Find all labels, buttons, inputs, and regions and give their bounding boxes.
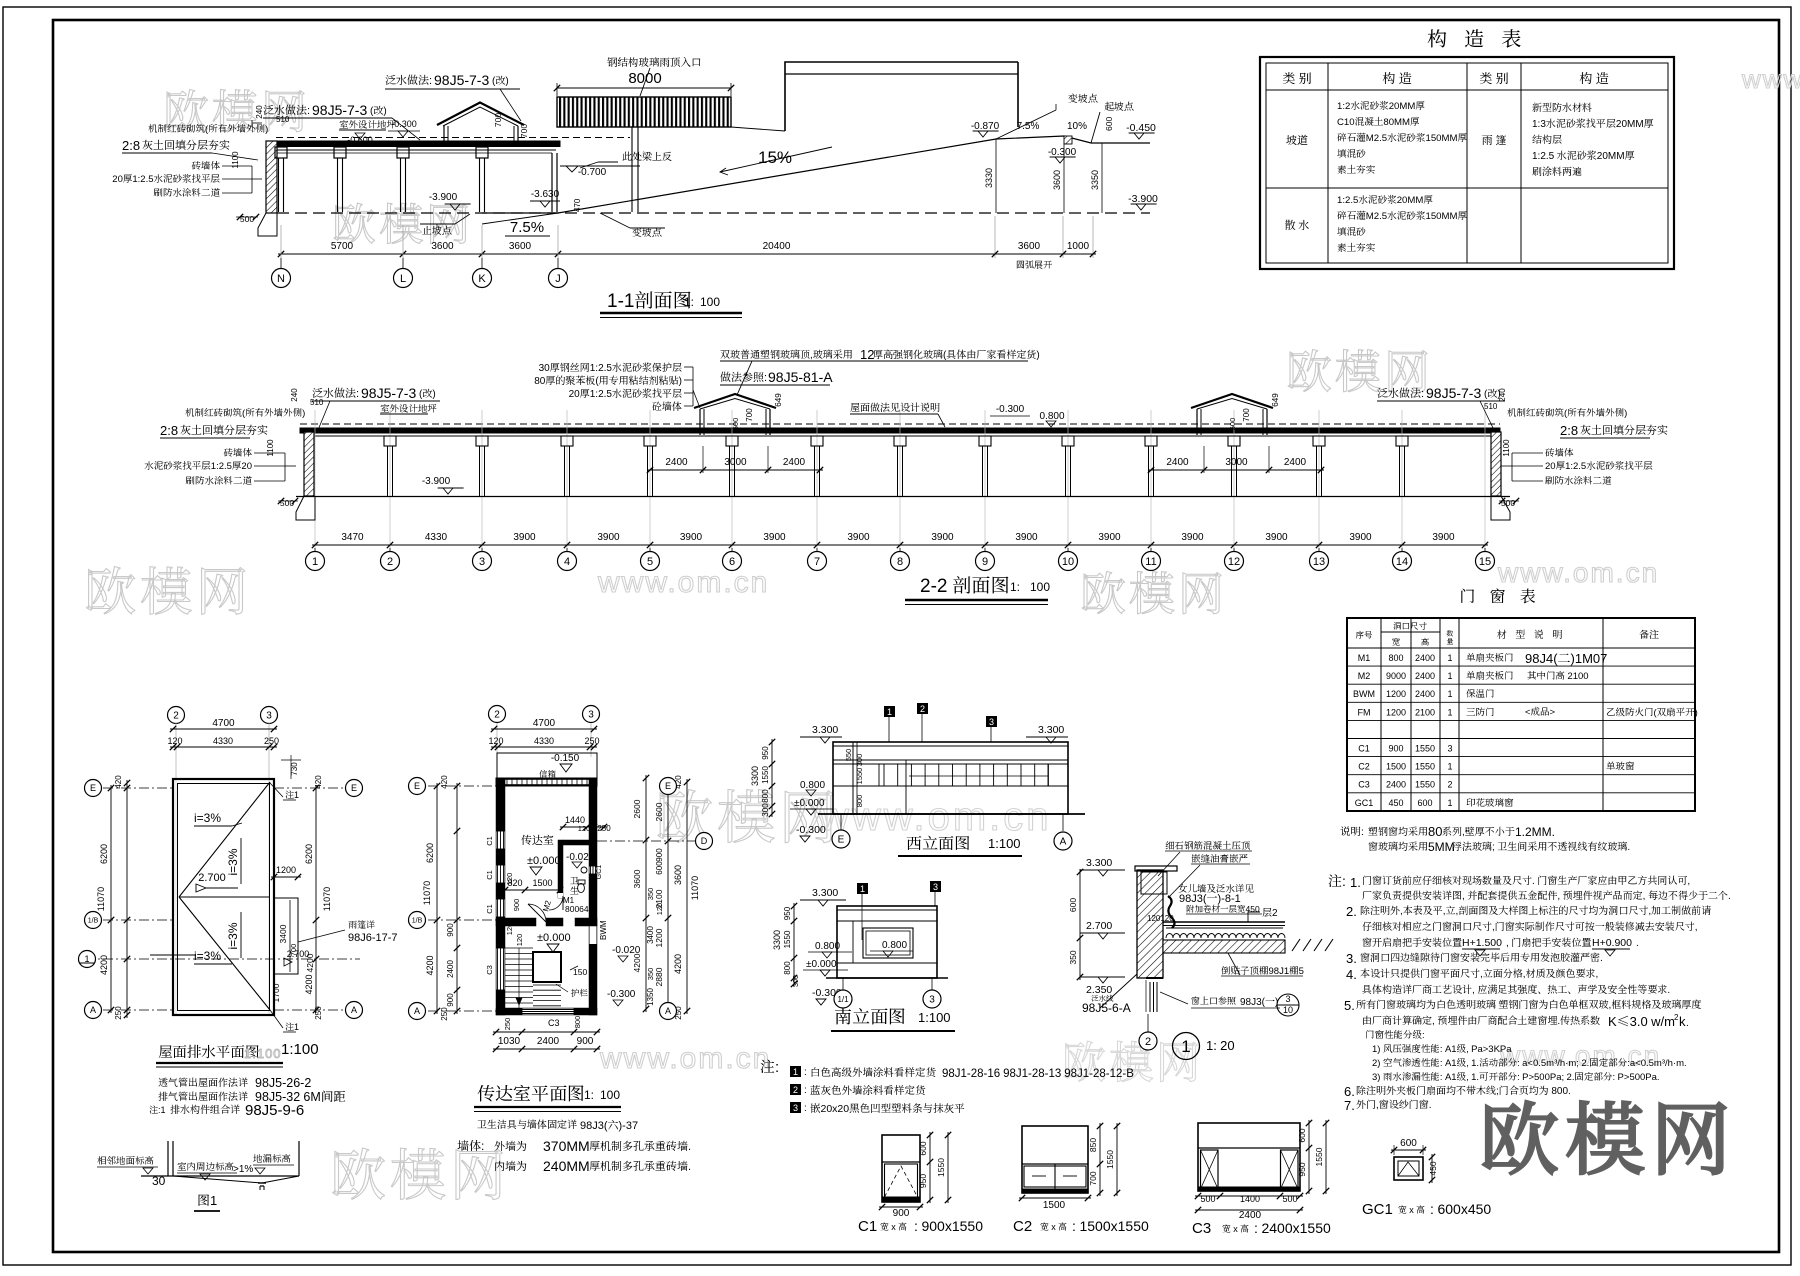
svg-text:砖墙体: 砖墙体 xyxy=(191,158,220,172)
svg-text:3600: 3600 xyxy=(1050,170,1063,190)
svg-text:1:3水泥砂浆找平层20MM厚: 1:3水泥砂浆找平层20MM厚 xyxy=(1532,115,1654,130)
svg-text:3600: 3600 xyxy=(1018,237,1041,252)
svg-text:6200: 6200 xyxy=(302,844,315,864)
section 2-2 skylight 1 gable xyxy=(694,394,776,408)
svg-text:注:: 注: xyxy=(760,1056,779,1077)
svg-text:4200: 4200 xyxy=(97,955,110,975)
section 2-2 beams and columns xyxy=(384,436,396,446)
svg-text:250: 250 xyxy=(439,1007,450,1021)
svg-text:1100: 1100 xyxy=(265,439,276,457)
svg-text:填混砂: 填混砂 xyxy=(1337,224,1366,238)
svg-text:9: 9 xyxy=(982,553,988,569)
svg-text:E: E xyxy=(838,831,845,846)
svg-text:1: 20: 1: 20 xyxy=(1206,1035,1235,1054)
svg-text:3600: 3600 xyxy=(671,865,684,885)
svg-text:.: . xyxy=(1686,1014,1689,1029)
west elevation window mullions xyxy=(883,764,885,786)
svg-text:三防门: 三防门 xyxy=(1466,704,1495,718)
svg-text:2600: 2600 xyxy=(653,802,665,821)
svg-text:3350: 3350 xyxy=(1088,170,1101,190)
svg-text::: : xyxy=(804,1081,807,1096)
section 2-2 grid dimension chain xyxy=(312,544,1488,546)
svg-text:嵌缝油膏嵌严: 嵌缝油膏嵌严 xyxy=(1191,851,1248,865)
svg-text:K: K xyxy=(478,270,486,286)
svg-text:GC1: GC1 xyxy=(594,865,604,880)
svg-text:C3: C3 xyxy=(1192,1217,1211,1238)
svg-text:仔细核对相应之门窗洞口尺寸,门窗实际制作尺寸可按一般装修减去: 仔细核对相应之门窗洞口尺寸,门窗实际制作尺寸可按一般装修减去安装尺寸, xyxy=(1362,918,1698,933)
svg-text:GC1: GC1 xyxy=(1362,1198,1393,1219)
svg-text:窗洞口四边缝隙待门窗安装完毕后用专用发泡胶灌严密.: 窗洞口四边缝隙待门窗安装完毕后用专用发泡胶灌严密. xyxy=(1360,949,1603,964)
svg-text:(改): (改) xyxy=(370,102,387,117)
section 2-2 grid bubbles 1-15 xyxy=(314,548,316,552)
detail bubbles xyxy=(1147,1014,1149,1032)
svg-text:2100: 2100 xyxy=(1415,705,1435,718)
svg-text:850: 850 xyxy=(1087,1138,1099,1152)
svg-text:欧模网: 欧模网 xyxy=(84,550,252,625)
svg-text:20厚1:2.5水泥砂浆找平层: 20厚1:2.5水泥砂浆找平层 xyxy=(1545,458,1653,472)
svg-text:98J1-28-16 98J1-28-13 98J1-2: 98J1-28-16 98J1-28-13 98J1-28-12-B xyxy=(942,1065,1134,1081)
svg-text:除注明外夹板门扇面均不带木线;门合页均为 800.: 除注明外夹板门扇面均不带木线;门合页均为 800. xyxy=(1356,1082,1571,1097)
svg-text:3300: 3300 xyxy=(770,930,783,950)
svg-text:1: 1 xyxy=(887,705,892,718)
section 1-1 right column at J xyxy=(551,153,553,212)
svg-text:-3.900: -3.900 xyxy=(422,472,451,487)
svg-text:(改): (改) xyxy=(492,72,509,87)
svg-text:1100: 1100 xyxy=(230,151,241,169)
section 2-2 ground line xyxy=(296,496,1510,498)
svg-text:1030: 1030 xyxy=(498,1032,521,1047)
section 1-1 level -0.870 xyxy=(978,131,988,137)
svg-text:500: 500 xyxy=(1200,1192,1215,1205)
svg-text:300: 300 xyxy=(791,975,801,987)
svg-text:印花玻璃窗: 印花玻璃窗 xyxy=(1466,795,1514,809)
svg-text:3900: 3900 xyxy=(680,528,703,543)
svg-text:10%: 10% xyxy=(1067,117,1087,132)
svg-text:3900: 3900 xyxy=(1098,528,1121,543)
svg-text:相邻地面标高: 相邻地面标高 xyxy=(97,1153,154,1167)
svg-text:E: E xyxy=(414,779,420,792)
south elevation outline xyxy=(837,906,937,978)
svg-text:1: 1 xyxy=(1447,796,1452,809)
svg-text:±0.000: ±0.000 xyxy=(806,955,837,970)
svg-text:1:2.5水泥砂浆20MM厚: 1:2.5水泥砂浆20MM厚 xyxy=(1337,192,1433,206)
svg-text:1: 1 xyxy=(1181,1032,1190,1057)
svg-text:600: 600 xyxy=(1417,796,1432,809)
svg-text:白色高级外墙涂料看样定货: 白色高级外墙涂料看样定货 xyxy=(810,1065,936,1080)
svg-text:900: 900 xyxy=(654,848,665,862)
svg-text:变坡点: 变坡点 xyxy=(1067,90,1098,105)
svg-text:泛水做法:: 泛水做法: xyxy=(385,72,432,88)
svg-text:950: 950 xyxy=(782,906,793,920)
svg-text:0.800: 0.800 xyxy=(882,936,907,951)
gatehouse left wall xyxy=(496,786,505,1015)
svg-text:649: 649 xyxy=(773,393,784,407)
svg-text:4330: 4330 xyxy=(534,734,554,747)
svg-text:厚高强钢化玻璃(具体由厂家看样定货): 厚高强钢化玻璃(具体由厂家看样定货) xyxy=(873,346,1040,361)
south elevation window xyxy=(863,928,913,958)
svg-text:外门,窗设纱门窗.: 外门,窗设纱门窗. xyxy=(1356,1096,1432,1111)
roof plan top dims xyxy=(170,728,277,730)
svg-text:附加卷材一层宽450: 附加卷材一层宽450 xyxy=(1186,903,1260,915)
svg-text:2: 2 xyxy=(494,706,500,721)
svg-text:-0.150: -0.150 xyxy=(551,749,580,764)
svg-text:±0.000: ±0.000 xyxy=(527,852,561,868)
svg-text:1:100: 1:100 xyxy=(244,1043,282,1062)
svg-text:420: 420 xyxy=(439,775,450,789)
section 1-1 canopy dimension 8000 xyxy=(557,87,731,89)
roof plan left dims xyxy=(110,785,112,1013)
svg-text:800: 800 xyxy=(1388,651,1403,664)
svg-text:E: E xyxy=(90,781,96,794)
svg-text:构 造 表: 构 造 表 xyxy=(1427,23,1527,52)
section 1-1 roof dashed screed line xyxy=(276,137,630,139)
svg-text:: 2400x1550: : 2400x1550 xyxy=(1254,1218,1331,1238)
svg-text:<成品>: <成品> xyxy=(1525,704,1556,718)
svg-text:A: A xyxy=(351,1003,357,1016)
svg-text:西立面图: 西立面图 xyxy=(906,831,970,854)
section 2-2 roof slab band xyxy=(300,428,1500,433)
svg-text:250: 250 xyxy=(584,734,599,747)
svg-text:A: A xyxy=(414,1004,420,1017)
svg-text:100: 100 xyxy=(600,1086,620,1103)
west elevation outline xyxy=(833,742,1068,814)
svg-text:-0.700: -0.700 xyxy=(578,163,607,178)
svg-text:卫生洁具与墙体固定详: 卫生洁具与墙体固定详 xyxy=(477,1116,578,1131)
door window table columns xyxy=(1380,618,1382,811)
svg-text:3900: 3900 xyxy=(847,528,870,543)
svg-text:3330: 3330 xyxy=(982,168,995,188)
svg-text:500: 500 xyxy=(730,418,741,431)
svg-text:800640: 800640 xyxy=(565,903,594,915)
svg-text:98J3(六)-37: 98J3(六)-37 xyxy=(580,1117,638,1133)
svg-text:2.700: 2.700 xyxy=(1086,918,1112,933)
svg-text:(改): (改) xyxy=(419,385,436,400)
svg-text:2400: 2400 xyxy=(537,1032,560,1047)
south elevation ground and bubbles xyxy=(826,977,948,979)
svg-text:排水构件组合详: 排水构件组合详 xyxy=(170,1101,241,1116)
svg-text:510: 510 xyxy=(276,114,290,125)
svg-text:120: 120 xyxy=(167,734,182,747)
svg-text:7: 7 xyxy=(814,553,820,569)
gatehouse toilet fixtures xyxy=(578,883,585,892)
roof plan ridge and valley lines xyxy=(179,896,270,898)
section 1-1 canopy column xyxy=(631,127,633,212)
svg-text:11070: 11070 xyxy=(688,876,701,900)
svg-text:500: 500 xyxy=(1282,1192,1297,1205)
svg-text:A: A xyxy=(665,1004,671,1017)
svg-text:2600: 2600 xyxy=(631,799,643,818)
svg-text:510: 510 xyxy=(1484,401,1498,412)
svg-text:250: 250 xyxy=(113,1006,124,1020)
svg-text:1: 1 xyxy=(1447,705,1452,718)
gatehouse top dims xyxy=(491,728,597,730)
svg-text:i=3%: i=3% xyxy=(194,947,221,964)
svg-text:L: L xyxy=(400,270,406,286)
svg-text:-0.020: -0.020 xyxy=(566,848,595,863)
svg-text:649: 649 xyxy=(1270,393,1281,407)
roof plan right grid bubbles xyxy=(274,787,346,789)
svg-text:2:8: 2:8 xyxy=(160,420,178,439)
svg-text:嵌20x20黑色凹型塑料条与抹灰平: 嵌20x20黑色凹型塑料条与抹灰平 xyxy=(810,1101,965,1116)
svg-text:3400: 3400 xyxy=(277,924,289,943)
west elevation left dims xyxy=(771,739,773,817)
svg-text:900: 900 xyxy=(577,1032,594,1047)
svg-text:刷防水涂料二道: 刷防水涂料二道 xyxy=(1545,473,1612,487)
svg-text:素土夯实: 素土夯实 xyxy=(1337,240,1375,254)
south elevation finish flags xyxy=(857,883,868,894)
svg-text:240MM: 240MM xyxy=(543,1156,590,1176)
svg-text:100: 100 xyxy=(700,293,720,310)
svg-text:1:2.5 水泥砂浆20MM厚: 1:2.5 水泥砂浆20MM厚 xyxy=(1532,147,1635,162)
svg-text:宽 x 高: 宽 x 高 xyxy=(1222,1222,1249,1235)
svg-text:0.800: 0.800 xyxy=(815,937,840,952)
svg-text:3900: 3900 xyxy=(1432,528,1455,543)
svg-text:500: 500 xyxy=(1227,418,1238,431)
svg-text:外墙为: 外墙为 xyxy=(494,1138,527,1154)
svg-text:3: 3 xyxy=(1447,742,1452,755)
svg-text:倒贴子顶棚98J1棚5: 倒贴子顶棚98J1棚5 xyxy=(1221,963,1304,977)
svg-text:3900: 3900 xyxy=(513,528,536,543)
svg-text:新型防水材料: 新型防水材料 xyxy=(1532,99,1592,114)
svg-text:1-1剖面图: 1-1剖面图 xyxy=(607,286,691,313)
section 1-1 level -0.450 xyxy=(1134,133,1144,139)
svg-text:700: 700 xyxy=(744,408,755,422)
svg-text:2) 空气渗透性能: A1级, 1.活动部分: a<0.5: 2) 空气渗透性能: A1级, 1.活动部分: a<0.5m³/h·m; 2.固… xyxy=(1372,1055,1687,1069)
svg-text:4330: 4330 xyxy=(425,528,448,543)
svg-text:i=3%: i=3% xyxy=(194,809,221,826)
svg-text:A: A xyxy=(90,1003,96,1016)
section 2-2 left exterior wall hatched xyxy=(304,432,314,496)
west elevation finish flags xyxy=(884,706,895,717)
svg-text:30: 30 xyxy=(152,1172,166,1189)
svg-text:1500: 1500 xyxy=(532,876,552,889)
svg-text:1/B: 1/B xyxy=(412,916,423,926)
svg-text:1: 1 xyxy=(1447,651,1452,664)
window GC1 elevation xyxy=(1394,1157,1423,1180)
svg-text:±0.000: ±0.000 xyxy=(794,794,825,809)
svg-text:1.: 1. xyxy=(1350,872,1361,891)
svg-text:240: 240 xyxy=(1497,388,1508,402)
svg-text:600: 600 xyxy=(654,861,665,875)
gatehouse right dim stack xyxy=(645,775,647,1012)
svg-text:内墙为: 内墙为 xyxy=(494,1158,527,1174)
detail hatch continuation slashes xyxy=(1292,939,1300,951)
svg-text:H+0.900: H+0.900 xyxy=(1592,935,1632,950)
gatehouse right grid bubbles xyxy=(597,840,696,842)
svg-text:700: 700 xyxy=(492,113,504,127)
svg-text:120: 120 xyxy=(488,734,503,747)
svg-text:1550: 1550 xyxy=(1313,1147,1325,1166)
svg-text:填混砂: 填混砂 xyxy=(1337,146,1366,160)
svg-text:H+1.500: H+1.500 xyxy=(1462,935,1502,950)
svg-text:宽 x 高: 宽 x 高 xyxy=(1040,1220,1067,1233)
svg-text:450: 450 xyxy=(1388,796,1403,809)
svg-text:泛水做法:: 泛水做法: xyxy=(1377,385,1424,401)
svg-text:15: 15 xyxy=(1479,553,1491,569)
svg-text:1500: 1500 xyxy=(1043,1196,1066,1211)
svg-text:1: 1 xyxy=(1447,760,1452,773)
svg-text:900: 900 xyxy=(445,923,456,937)
svg-text:4200: 4200 xyxy=(423,955,436,975)
svg-text:刷涂料两遍: 刷涂料两遍 xyxy=(1532,163,1582,178)
svg-text:注1: 注1 xyxy=(285,1020,299,1033)
svg-text:2.: 2. xyxy=(1346,901,1357,920)
svg-text:15%: 15% xyxy=(758,143,792,168)
svg-text:2: 2 xyxy=(387,553,393,569)
svg-text:坡道: 坡道 xyxy=(1286,132,1308,148)
svg-text:i=3%: i=3% xyxy=(224,848,241,875)
gatehouse toilet walls xyxy=(558,840,563,898)
svg-text:1000: 1000 xyxy=(1067,237,1090,252)
svg-text:机制红砖砌筑(所有外墙外侧): 机制红砖砌筑(所有外墙外侧) xyxy=(1507,405,1627,419)
svg-text:2400: 2400 xyxy=(1415,669,1435,682)
svg-text:备注: 备注 xyxy=(1639,626,1659,641)
svg-text:6200: 6200 xyxy=(423,843,436,863)
section 1-1 roof slab xyxy=(268,141,560,147)
svg-text:420: 420 xyxy=(313,775,324,789)
svg-text:2:8: 2:8 xyxy=(1560,420,1578,439)
svg-text:C10混凝土80MM厚: C10混凝土80MM厚 xyxy=(1337,114,1420,128)
svg-text:1550: 1550 xyxy=(760,766,771,784)
detail insulation scallops xyxy=(1166,934,1285,939)
svg-text:300: 300 xyxy=(854,754,865,767)
svg-text:5.: 5. xyxy=(1344,995,1355,1014)
svg-text:-0.300: -0.300 xyxy=(796,822,826,837)
svg-text:10: 10 xyxy=(1283,1003,1293,1016)
svg-text:i=3%: i=3% xyxy=(224,922,241,949)
section 1-1 skylight gable xyxy=(437,103,524,126)
svg-text:: 900x1550: : 900x1550 xyxy=(914,1216,983,1236)
svg-text:2400: 2400 xyxy=(1415,651,1435,664)
svg-text:1550: 1550 xyxy=(1415,760,1435,773)
svg-text:1550: 1550 xyxy=(935,1158,947,1177)
svg-text:2400: 2400 xyxy=(1415,687,1435,700)
svg-text:3: 3 xyxy=(266,707,272,722)
svg-text:700: 700 xyxy=(288,944,299,957)
svg-text:600: 600 xyxy=(1103,117,1115,131)
window C3 elevation xyxy=(1198,1123,1300,1191)
svg-text:600: 600 xyxy=(1400,1134,1417,1149)
svg-text:6: 6 xyxy=(729,553,735,569)
svg-text:E: E xyxy=(665,779,671,792)
svg-text:序号: 序号 xyxy=(1355,629,1373,641)
svg-text:1550: 1550 xyxy=(782,930,793,948)
svg-text:C3: C3 xyxy=(548,1016,560,1029)
svg-text:室内周边标高: 室内周边标高 xyxy=(177,1159,234,1173)
gatehouse grid bubbles top xyxy=(489,706,506,723)
svg-text:传达室平面图: 传达室平面图 xyxy=(477,1080,585,1106)
figure1 ground level detail xyxy=(141,1175,299,1177)
svg-text:层2: 层2 xyxy=(1262,904,1278,919)
svg-text:透气管出屋面作法详: 透气管出屋面作法详 xyxy=(158,1074,249,1089)
svg-text:此处梁上反: 此处梁上反 xyxy=(622,148,672,163)
gatehouse left dims xyxy=(436,783,438,1014)
construction table outer frame xyxy=(1260,57,1674,269)
svg-text:南立面图: 南立面图 xyxy=(834,1003,906,1029)
svg-text:结构层: 结构层 xyxy=(1532,131,1562,146)
svg-text:1:: 1: xyxy=(1010,578,1020,595)
svg-text:J: J xyxy=(555,270,561,286)
svg-text:类 别: 类 别 xyxy=(1479,68,1508,87)
svg-text:2880: 2880 xyxy=(653,967,665,986)
svg-text:12: 12 xyxy=(1228,553,1240,569)
svg-text:厂家负责提供安装详图, 并配套提供五金配件, 预埋件视产品而: 厂家负责提供安装详图, 并配套提供五金配件, 预埋件视产品而定, 每边不得少于二… xyxy=(1362,887,1731,902)
svg-text:M1: M1 xyxy=(1358,651,1371,664)
svg-text:-0.300: -0.300 xyxy=(607,985,636,1000)
svg-text:2400: 2400 xyxy=(1386,778,1406,791)
svg-text:3900: 3900 xyxy=(1015,528,1038,543)
svg-text:700: 700 xyxy=(1087,1171,1099,1185)
svg-text:800: 800 xyxy=(572,1016,583,1029)
svg-text:900: 900 xyxy=(511,899,522,912)
gatehouse entrance porch xyxy=(497,753,597,778)
svg-text:3: 3 xyxy=(929,991,935,1006)
svg-text:3600: 3600 xyxy=(431,237,454,252)
svg-text:洞口尺寸: 洞口尺寸 xyxy=(1393,620,1428,632)
svg-text:, 门扇把手安装位置: , 门扇把手安装位置 xyxy=(1506,934,1591,949)
svg-text:-0.450: -0.450 xyxy=(1126,120,1156,135)
svg-text:-3.900: -3.900 xyxy=(1128,191,1158,206)
svg-text:砖墙体: 砖墙体 xyxy=(1545,445,1574,459)
svg-text:9000: 9000 xyxy=(1386,669,1406,682)
svg-text:800: 800 xyxy=(760,789,771,803)
svg-text:>1%: >1% xyxy=(233,1160,253,1175)
svg-text:1700: 1700 xyxy=(270,983,282,1002)
svg-text:乙级防火门(双扇平开): 乙级防火门(双扇平开) xyxy=(1606,704,1698,718)
svg-text:门窗订货前应仔细核对现场数量及尺寸. 门窗生产厂家应由甲乙方: 门窗订货前应仔细核对现场数量及尺寸. 门窗生产厂家应由甲乙方共同认可, xyxy=(1362,872,1690,887)
svg-text:1200: 1200 xyxy=(653,928,665,947)
svg-text:K≤3.0 w/m: K≤3.0 w/m xyxy=(1608,1011,1675,1030)
section 2-2 interior dims 2400 3000 2400 right xyxy=(1148,469,1324,471)
svg-text:250: 250 xyxy=(264,734,279,747)
svg-text:1550: 1550 xyxy=(1415,778,1435,791)
svg-text::: : xyxy=(804,1063,807,1078)
svg-text:11070: 11070 xyxy=(94,887,107,911)
svg-text:-3.900: -3.900 xyxy=(429,188,458,203)
svg-text:www.om.cn: www.om.cn xyxy=(599,1033,771,1077)
svg-text:www.: www. xyxy=(1741,59,1800,96)
svg-text:240: 240 xyxy=(254,105,265,119)
svg-text:圆弧展开: 圆弧展开 xyxy=(1016,258,1053,271)
section 2-2 level -3.900 xyxy=(443,488,453,494)
svg-text:8000: 8000 xyxy=(628,67,661,88)
svg-text:14: 14 xyxy=(1396,553,1408,569)
roof plan grid bubbles top xyxy=(168,707,185,724)
svg-text:1: 1 xyxy=(1447,669,1452,682)
door window table row lines xyxy=(1347,647,1695,649)
svg-text:量: 量 xyxy=(1447,637,1454,647)
svg-text:单玻窗: 单玻窗 xyxy=(1606,759,1635,773)
svg-text:600: 600 xyxy=(1296,1128,1308,1142)
svg-text:2400: 2400 xyxy=(1166,453,1189,468)
svg-text:门 窗 表: 门 窗 表 xyxy=(1459,584,1540,607)
svg-text:240: 240 xyxy=(289,388,300,402)
svg-text:0.800: 0.800 xyxy=(800,776,825,791)
detail roof slab hatched xyxy=(1163,940,1285,953)
svg-text:2400: 2400 xyxy=(445,960,456,978)
svg-text:2: 2 xyxy=(920,702,925,715)
window C1 dims xyxy=(929,1132,931,1203)
svg-text:说明:: 说明: xyxy=(1340,824,1364,839)
window C2 elevation xyxy=(1022,1126,1088,1193)
svg-text:注1: 注1 xyxy=(285,788,299,801)
svg-text:单扇夹板门: 单扇夹板门 xyxy=(1466,650,1514,664)
detail window head below xyxy=(1146,977,1163,979)
section 2-2 right exterior wall hatched xyxy=(1491,432,1501,496)
svg-text:浮法玻璃; 卫生间采用不透视线有纹玻璃.: 浮法玻璃; 卫生间采用不透视线有纹玻璃. xyxy=(1452,838,1630,853)
svg-text:600: 600 xyxy=(1067,898,1079,912)
svg-text:98J5-9-6: 98J5-9-6 xyxy=(245,1099,304,1120)
